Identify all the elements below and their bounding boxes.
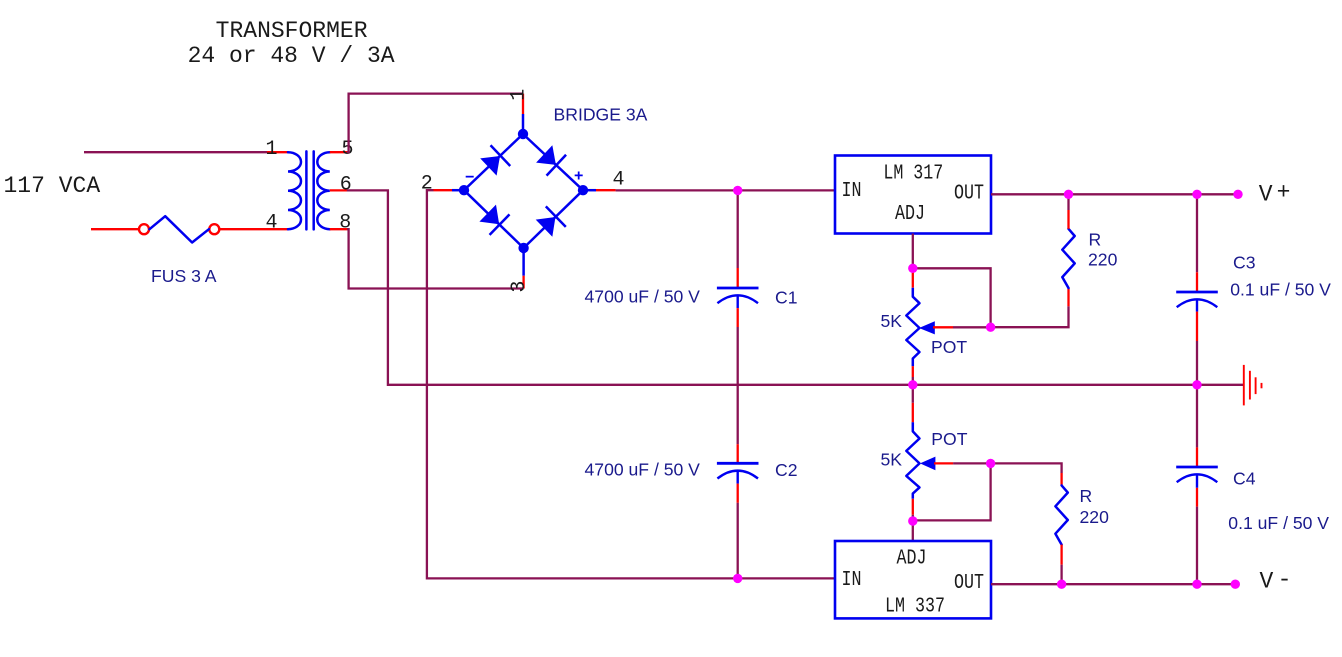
svg-text:5K: 5K	[881, 311, 903, 331]
wire pin 5 to bridge pin 1	[347, 94, 523, 153]
svg-text:POT: POT	[931, 429, 967, 449]
svg-text:220: 220	[1088, 250, 1118, 270]
svg-text:C1: C1	[775, 287, 798, 307]
wire pot1 bottom to ground rail	[912, 377, 914, 385]
diode D3 left to bottom	[478, 203, 510, 235]
svg-text:LM 337: LM 337	[885, 594, 945, 618]
wire LM317 OUT rail to V+	[991, 193, 1238, 195]
wire ground rail to pot2 top	[912, 385, 914, 403]
svg-text:C4: C4	[1233, 468, 1256, 488]
junction dots magenta	[733, 186, 1243, 589]
svg-text:ADJ: ADJ	[897, 546, 927, 570]
wire pot2 bottom to ADJ dot	[912, 515, 914, 521]
wire C3 to ground rail	[1196, 341, 1198, 385]
bridge rectifier B1	[452, 114, 596, 276]
bridge edge top-left	[464, 134, 523, 190]
svg-text:4700 uF / 50 V: 4700 uF / 50 V	[585, 459, 701, 479]
svg-text:POT: POT	[931, 337, 967, 357]
svg-text:-: -	[1278, 567, 1292, 593]
pin stub red pot1 wiper	[933, 326, 953, 328]
svg-text:V: V	[1260, 569, 1274, 595]
wire junction to C1	[737, 190, 739, 268]
svg-text:OUT: OUT	[954, 570, 984, 594]
pin stub red pot2 wiper	[934, 462, 953, 464]
svg-text:V: V	[1259, 181, 1273, 207]
pin stub red C4 top	[1196, 447, 1198, 466]
resistor R1 220	[1062, 229, 1074, 288]
wire wiper junction to R1	[991, 306, 1069, 327]
pin stub red C1 top	[737, 268, 739, 287]
regulator U2 LM337	[835, 541, 991, 618]
wire phase A to transformer pin 1	[84, 151, 267, 153]
wire pin 8 to bridge pin 3	[347, 229, 524, 288]
svg-text:LM 317: LM 317	[883, 161, 943, 185]
resistor R2 220	[1055, 485, 1067, 544]
svg-text:24 or 48 V / 3A: 24 or 48 V / 3A	[188, 43, 395, 69]
wire wiper2 junction to R2	[991, 463, 1062, 473]
svg-text:0.1 uF / 50 V: 0.1 uF / 50 V	[1230, 279, 1331, 299]
pin stub red bridge pin 4	[596, 189, 616, 191]
wire phase B red to fuse	[91, 228, 139, 230]
wire R1 top to V+ rail	[1067, 194, 1069, 210]
wire V+ rail to C3	[1196, 194, 1198, 272]
svg-text:R: R	[1089, 230, 1102, 250]
bridge edge bottom-left	[464, 190, 524, 248]
pin stub red C2 bottom	[737, 484, 739, 503]
wire C4 to V- rail	[1196, 507, 1198, 585]
bridge stub top	[522, 114, 525, 134]
capacitor C4	[1176, 467, 1218, 488]
wire ADJ loop to wiper	[913, 268, 991, 327]
pin stub red C2 top	[737, 444, 739, 462]
svg-text:OUT: OUT	[954, 181, 984, 205]
wire C1 to C2	[737, 327, 739, 444]
capacitor C1	[717, 288, 759, 308]
svg-text:117 VCA: 117 VCA	[4, 173, 101, 199]
svg-text:1: 1	[507, 89, 530, 101]
pin stub red bridge pin 1	[522, 94, 524, 114]
pin stub red bridge pin 3	[522, 276, 524, 289]
pin stub red R1 bottom	[1067, 288, 1069, 306]
svg-text:IN: IN	[842, 568, 862, 592]
pin stub red bridge pin 2	[434, 189, 453, 191]
pin stub red R1 top	[1067, 210, 1069, 229]
svg-text:+: +	[574, 168, 583, 185]
svg-text:C2: C2	[775, 460, 798, 480]
svg-text:+: +	[1277, 180, 1291, 206]
label V +	[1259, 180, 1291, 208]
wire bridge pin 2 to LM337 IN rail	[427, 190, 835, 578]
bridge node dots	[459, 129, 588, 253]
svg-text:ADJ: ADJ	[895, 201, 925, 225]
wire C2 to negative rail	[737, 503, 739, 579]
secondary coil	[317, 152, 330, 229]
svg-text:FUS 3 A: FUS 3 A	[151, 266, 217, 286]
svg-text:IN: IN	[842, 178, 862, 202]
svg-text:220: 220	[1080, 507, 1110, 527]
transformer T1	[288, 151, 330, 229]
pin stub red pin 8	[330, 228, 347, 230]
svg-text:R: R	[1080, 486, 1093, 506]
diode D1 left to top	[479, 145, 511, 177]
svg-text:6: 6	[340, 174, 352, 197]
pin stub red C4 bottom	[1196, 488, 1198, 507]
pin stub red pin 5	[330, 151, 347, 153]
fuse F1 FUS 3A	[139, 216, 219, 242]
pin stub red C1 bottom	[737, 308, 739, 327]
diode D2 top to right	[534, 143, 566, 175]
pin stub red pot1 top	[912, 273, 914, 288]
svg-text:4: 4	[265, 212, 277, 235]
wire LM317 ADJ down	[912, 234, 914, 269]
wire LM337 OUT rail to V-	[991, 583, 1235, 585]
svg-text:3: 3	[508, 281, 531, 293]
wire pot2 wiper to junction	[953, 462, 991, 464]
svg-text:4700 uF / 50 V: 4700 uF / 50 V	[585, 287, 701, 307]
svg-text:TRANSFORMER: TRANSFORMER	[216, 18, 368, 44]
pin stub red pot2 bottom	[912, 499, 914, 515]
wire ADJ2 dot to LM337	[912, 521, 914, 541]
wire pin 6 down to ground rail and ground rail	[347, 190, 1243, 384]
pin stub red R2 top	[1060, 473, 1062, 485]
bridge stub bottom	[522, 248, 525, 276]
svg-text:C3: C3	[1233, 253, 1256, 273]
label V -	[1260, 567, 1292, 595]
pin stub red R2 bottom	[1060, 545, 1062, 565]
svg-text:1: 1	[265, 138, 277, 161]
diode D4 bottom to right	[534, 206, 566, 238]
pin stub red pin 1	[267, 151, 288, 153]
wire bridge pin 4 to LM317 IN	[616, 189, 835, 191]
ground symbol	[1244, 365, 1262, 406]
pin stub red C3 top	[1196, 272, 1198, 291]
pin stub red pot1 bottom	[912, 366, 914, 377]
potentiometer POT2 5K	[906, 403, 953, 515]
pot2 wiper arrow	[920, 457, 935, 471]
pin stub red C3 bottom	[1196, 312, 1198, 341]
wire pot1 wiper to junction	[953, 326, 991, 328]
regulator U1 LM317	[835, 156, 991, 234]
svg-text:0.1 uF / 50 V: 0.1 uF / 50 V	[1228, 513, 1329, 533]
bridge stub right	[583, 189, 596, 192]
capacitor C2	[717, 463, 759, 483]
core bars	[305, 151, 308, 229]
svg-text:5K: 5K	[881, 450, 903, 470]
bridge edge bottom-right	[524, 190, 583, 248]
primary coil	[288, 152, 301, 229]
bridge edge top-right	[523, 134, 583, 190]
wire ground rail to C4	[1196, 385, 1198, 448]
bridge stub left	[452, 189, 464, 192]
pin stub red pot2 top	[912, 403, 914, 423]
potentiometer POT1 5K	[906, 273, 953, 378]
wire R2 to V- rail	[1060, 565, 1062, 585]
svg-text:4: 4	[612, 169, 624, 192]
pot1 wiper arrow	[919, 321, 935, 334]
label TRANSFORMER title	[188, 18, 395, 69]
pin stub red pin 6	[330, 189, 347, 191]
capacitor C3	[1176, 292, 1218, 312]
wire fuse to transformer pin 4 red	[220, 228, 288, 230]
svg-text:−: −	[465, 169, 474, 186]
svg-text:BRIDGE 3A: BRIDGE 3A	[554, 105, 648, 125]
wire wiper2 loop to pot2 bottom	[913, 463, 991, 520]
